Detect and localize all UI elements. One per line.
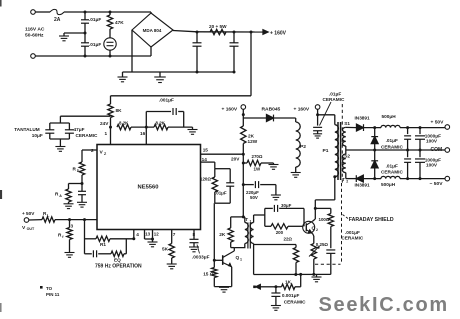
svg-text:Q: Q xyxy=(312,226,316,231)
svg-text:116V AC: 116V AC xyxy=(25,27,45,33)
svg-text:P1: P1 xyxy=(323,148,329,154)
svg-text:22Ω: 22Ω xyxy=(284,237,293,242)
svg-text:SeekIC.com: SeekIC.com xyxy=(319,294,449,316)
svg-text:MDA 804: MDA 804 xyxy=(143,28,162,33)
svg-text:20V: 20V xyxy=(231,157,240,162)
svg-text:8.2K: 8.2K xyxy=(156,121,166,126)
svg-text:PIN 11: PIN 11 xyxy=(46,292,60,297)
svg-text:7: 7 xyxy=(173,232,176,237)
svg-text:14: 14 xyxy=(202,157,208,162)
svg-text:CERAMIC: CERAMIC xyxy=(381,144,403,149)
svg-text:270Ω: 270Ω xyxy=(252,154,263,159)
svg-text:CERAMIC: CERAMIC xyxy=(341,236,363,241)
svg-text:47μF: 47μF xyxy=(74,127,85,132)
svg-text:2K: 2K xyxy=(219,232,226,237)
svg-text:50-60Hz: 50-60Hz xyxy=(25,33,44,39)
svg-text:20 + 5W: 20 + 5W xyxy=(209,24,227,29)
svg-text:.01μF: .01μF xyxy=(386,164,398,169)
svg-text:759 Hz OPERATION: 759 Hz OPERATION xyxy=(95,264,142,270)
svg-text:S1: S1 xyxy=(344,121,350,126)
svg-text:R1: R1 xyxy=(100,242,106,247)
svg-text:200: 200 xyxy=(276,230,284,235)
svg-text:10μF: 10μF xyxy=(32,133,43,138)
svg-text:COM: COM xyxy=(431,147,443,153)
svg-text:.01μF: .01μF xyxy=(329,92,341,97)
svg-text:.001μF: .001μF xyxy=(345,230,360,235)
svg-text:24V: 24V xyxy=(100,121,109,126)
svg-text:− 50V: − 50V xyxy=(430,181,444,187)
svg-text:15 Ω: 15 Ω xyxy=(203,272,214,277)
svg-text:2: 2 xyxy=(346,180,348,184)
svg-text:T: T xyxy=(245,217,248,222)
svg-text:CERAMIC: CERAMIC xyxy=(381,170,403,175)
svg-text:1: 1 xyxy=(105,131,108,136)
svg-text:1K: 1K xyxy=(285,280,292,285)
svg-text:8: 8 xyxy=(193,232,196,237)
svg-text:30μF: 30μF xyxy=(281,203,292,208)
svg-text:500μH: 500μH xyxy=(382,114,397,119)
svg-text:+ 50V: + 50V xyxy=(431,120,445,126)
svg-text:IN3891: IN3891 xyxy=(355,116,371,121)
svg-text:2: 2 xyxy=(316,228,318,232)
svg-text:CERAMIC: CERAMIC xyxy=(284,299,306,304)
svg-text:OUT: OUT xyxy=(27,227,35,231)
svg-text:FARADAY SHIELD: FARADAY SHIELD xyxy=(349,217,394,223)
svg-text:IN3891: IN3891 xyxy=(355,182,371,187)
svg-text:A: A xyxy=(59,194,62,198)
svg-text:D: D xyxy=(77,169,80,173)
svg-text:.01μF: .01μF xyxy=(386,138,398,143)
svg-text:Q: Q xyxy=(236,255,240,260)
svg-text:RAB045: RAB045 xyxy=(262,107,281,113)
svg-text:16: 16 xyxy=(140,131,146,136)
svg-text:100V: 100V xyxy=(426,138,438,143)
svg-text:1W: 1W xyxy=(254,167,261,172)
svg-text:100V: 100V xyxy=(426,163,438,168)
svg-text:P2: P2 xyxy=(300,144,306,150)
svg-text:T: T xyxy=(342,177,345,182)
svg-text:500μH: 500μH xyxy=(381,182,396,187)
svg-text:120Ω: 120Ω xyxy=(200,177,211,182)
svg-text:.01μF: .01μF xyxy=(89,42,101,47)
svg-text:0.001μF: 0.001μF xyxy=(282,293,300,298)
svg-text:2A: 2A xyxy=(54,17,61,23)
svg-text:TO: TO xyxy=(46,286,53,291)
svg-text:3: 3 xyxy=(71,224,74,229)
svg-text:15: 15 xyxy=(203,148,209,153)
svg-text:+ 160V: + 160V xyxy=(222,107,238,113)
svg-text:12W: 12W xyxy=(248,139,258,144)
svg-text:+ 160V: + 160V xyxy=(294,107,310,113)
svg-text:2K: 2K xyxy=(248,134,255,139)
svg-text:50V: 50V xyxy=(250,195,258,200)
svg-text:+ 50V: + 50V xyxy=(22,211,35,216)
svg-text:.01μF: .01μF xyxy=(215,191,227,196)
svg-text:5K: 5K xyxy=(162,247,169,252)
svg-text:100Ω: 100Ω xyxy=(319,217,330,222)
svg-text:.0033μF: .0033μF xyxy=(192,255,210,260)
svg-text:NE5560: NE5560 xyxy=(138,185,159,191)
svg-text:.01μF: .01μF xyxy=(89,17,101,22)
svg-text:1: 1 xyxy=(240,258,242,262)
svg-text:13: 13 xyxy=(145,232,150,237)
svg-text:8.2K: 8.2K xyxy=(119,121,129,126)
svg-text:47K: 47K xyxy=(115,20,124,25)
svg-text:+ 160V: + 160V xyxy=(270,30,287,36)
svg-text:EQ: EQ xyxy=(114,258,121,263)
svg-text:8K: 8K xyxy=(116,108,123,113)
svg-text:CERAMIC: CERAMIC xyxy=(323,97,345,102)
svg-text:TANTALUM: TANTALUM xyxy=(14,127,39,132)
svg-text:.001μF: .001μF xyxy=(159,98,174,103)
svg-text:CERAMIC: CERAMIC xyxy=(76,133,98,138)
svg-text:12: 12 xyxy=(154,232,159,237)
svg-text:4: 4 xyxy=(136,232,139,237)
svg-text:0.25Ω: 0.25Ω xyxy=(316,242,329,247)
